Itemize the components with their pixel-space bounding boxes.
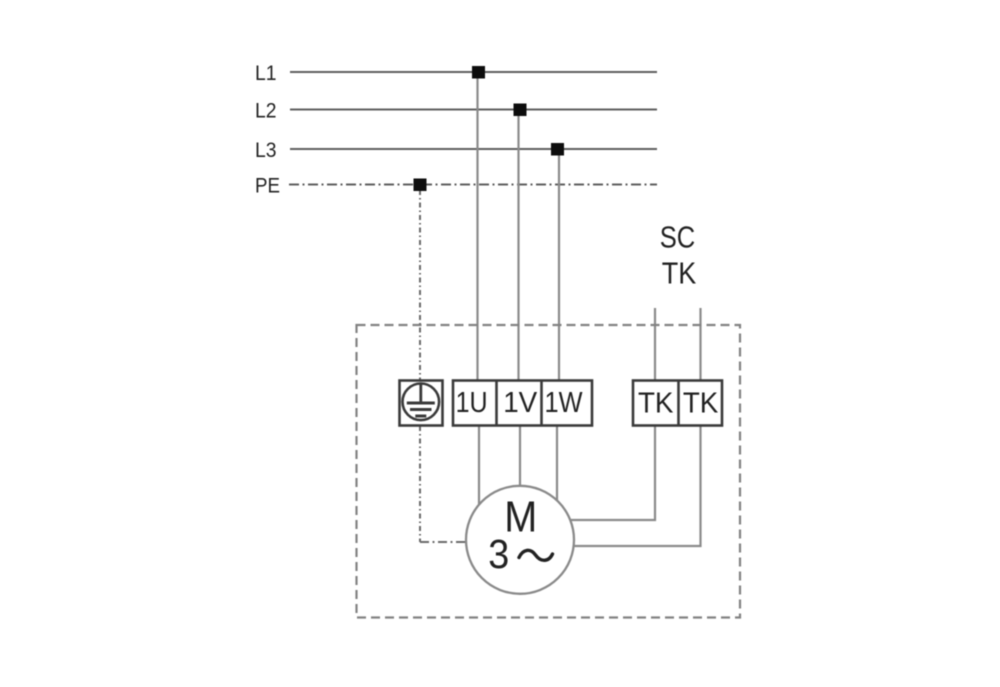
svg-text:1W: 1W: [545, 387, 583, 419]
svg-text:L2: L2: [255, 99, 277, 123]
svg-text:TK: TK: [638, 388, 674, 420]
svg-text:SC: SC: [660, 219, 696, 254]
svg-text:TK: TK: [683, 388, 719, 420]
svg-text:3: 3: [488, 531, 509, 577]
svg-text:TK: TK: [662, 256, 697, 291]
svg-text:1V: 1V: [503, 387, 537, 419]
svg-text:1U: 1U: [456, 387, 488, 419]
svg-text:L1: L1: [255, 61, 277, 85]
svg-text:PE: PE: [255, 173, 280, 197]
svg-text:L3: L3: [255, 138, 277, 162]
